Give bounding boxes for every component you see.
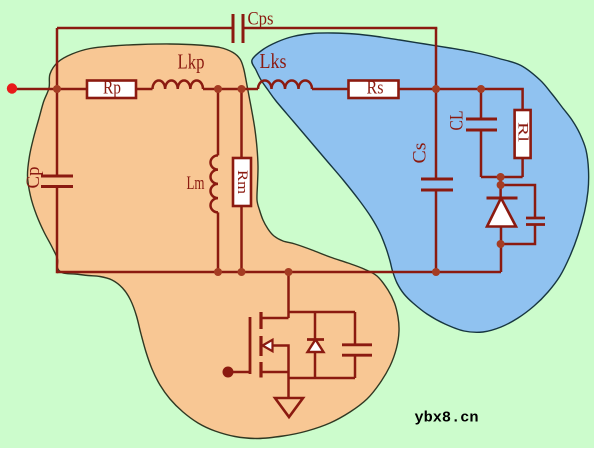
junction node 12 — [497, 240, 505, 248]
wire input to Rp — [12, 88, 87, 91]
wire Lks to Rs — [312, 88, 349, 91]
junction node 4 — [432, 85, 440, 93]
wire to output cap — [501, 185, 535, 218]
capacitor Co — [526, 217, 545, 220]
snubber bottom rail — [289, 372, 356, 378]
wire Lkp to Lks — [203, 88, 258, 91]
wire left vertical (input column) — [56, 28, 59, 176]
junction node 6 — [214, 268, 222, 276]
inductor Lm — [217, 89, 220, 155]
secondary-side region blob (blue) — [252, 33, 589, 332]
capacitor snubber — [354, 312, 357, 345]
capacitor Cps — [232, 14, 235, 43]
svg-text:Rs: Rs — [367, 78, 384, 99]
diode D1 — [487, 197, 518, 200]
svg-text:Cps: Cps — [248, 9, 274, 30]
svg-text:Lks: Lks — [260, 49, 287, 73]
capacitor Cs — [435, 28, 438, 179]
ground bus — [57, 271, 501, 274]
junction node 9 — [432, 268, 440, 276]
snubber top rail — [289, 311, 356, 314]
node rectifier top — [499, 177, 502, 198]
wire top-left vertical (input node to Cps) — [57, 27, 233, 30]
wire Rs to RL branch — [399, 89, 523, 110]
primary-side region blob (orange) — [27, 44, 399, 439]
junction node 10 — [497, 173, 505, 181]
svg-text:Lkp: Lkp — [178, 50, 205, 74]
inductor Lkp — [153, 81, 203, 90]
input terminal dot — [7, 83, 17, 93]
svg-text:Cs: Cs — [410, 143, 431, 164]
inductor Lks — [258, 81, 312, 90]
wire CL/RL join — [481, 176, 523, 179]
svg-text:CL: CL — [447, 111, 468, 131]
resistor Rm — [240, 89, 243, 158]
svg-text:Cp: Cp — [23, 167, 44, 189]
MOSFET body arrow — [263, 340, 273, 351]
wire Rp to Lkp — [136, 88, 153, 91]
resistor RL — [515, 110, 531, 158]
junction node 7 — [238, 268, 246, 276]
capacitor CL — [480, 89, 483, 119]
svg-text:ybx8.cn: ybx8.cn — [415, 411, 479, 427]
svg-text:Lm: Lm — [187, 173, 205, 194]
junction node 8 — [285, 268, 293, 276]
resistor Rs — [349, 81, 399, 99]
junction node 1 — [53, 85, 61, 93]
svg-text:Rl: Rl — [515, 122, 531, 142]
MOSFET drain connection — [287, 272, 290, 318]
diode D2 — [314, 312, 317, 340]
capacitor Cp — [41, 175, 73, 178]
gate lead — [228, 371, 250, 374]
junction node 3 — [238, 85, 246, 93]
gate terminal dot — [223, 367, 234, 378]
wire diode to bus corner — [500, 227, 503, 273]
junction node 2 — [214, 85, 222, 93]
svg-text:Rm: Rm — [234, 170, 250, 194]
MOSFET source lead — [261, 371, 289, 374]
resistor Rp — [87, 81, 136, 99]
junction node 5 — [477, 85, 485, 93]
ground — [287, 378, 290, 398]
svg-text:Rp: Rp — [103, 78, 121, 99]
wire Cps right to right column — [243, 27, 437, 30]
MOSFET Q1 — [249, 317, 252, 374]
junction node 11 — [497, 181, 505, 189]
